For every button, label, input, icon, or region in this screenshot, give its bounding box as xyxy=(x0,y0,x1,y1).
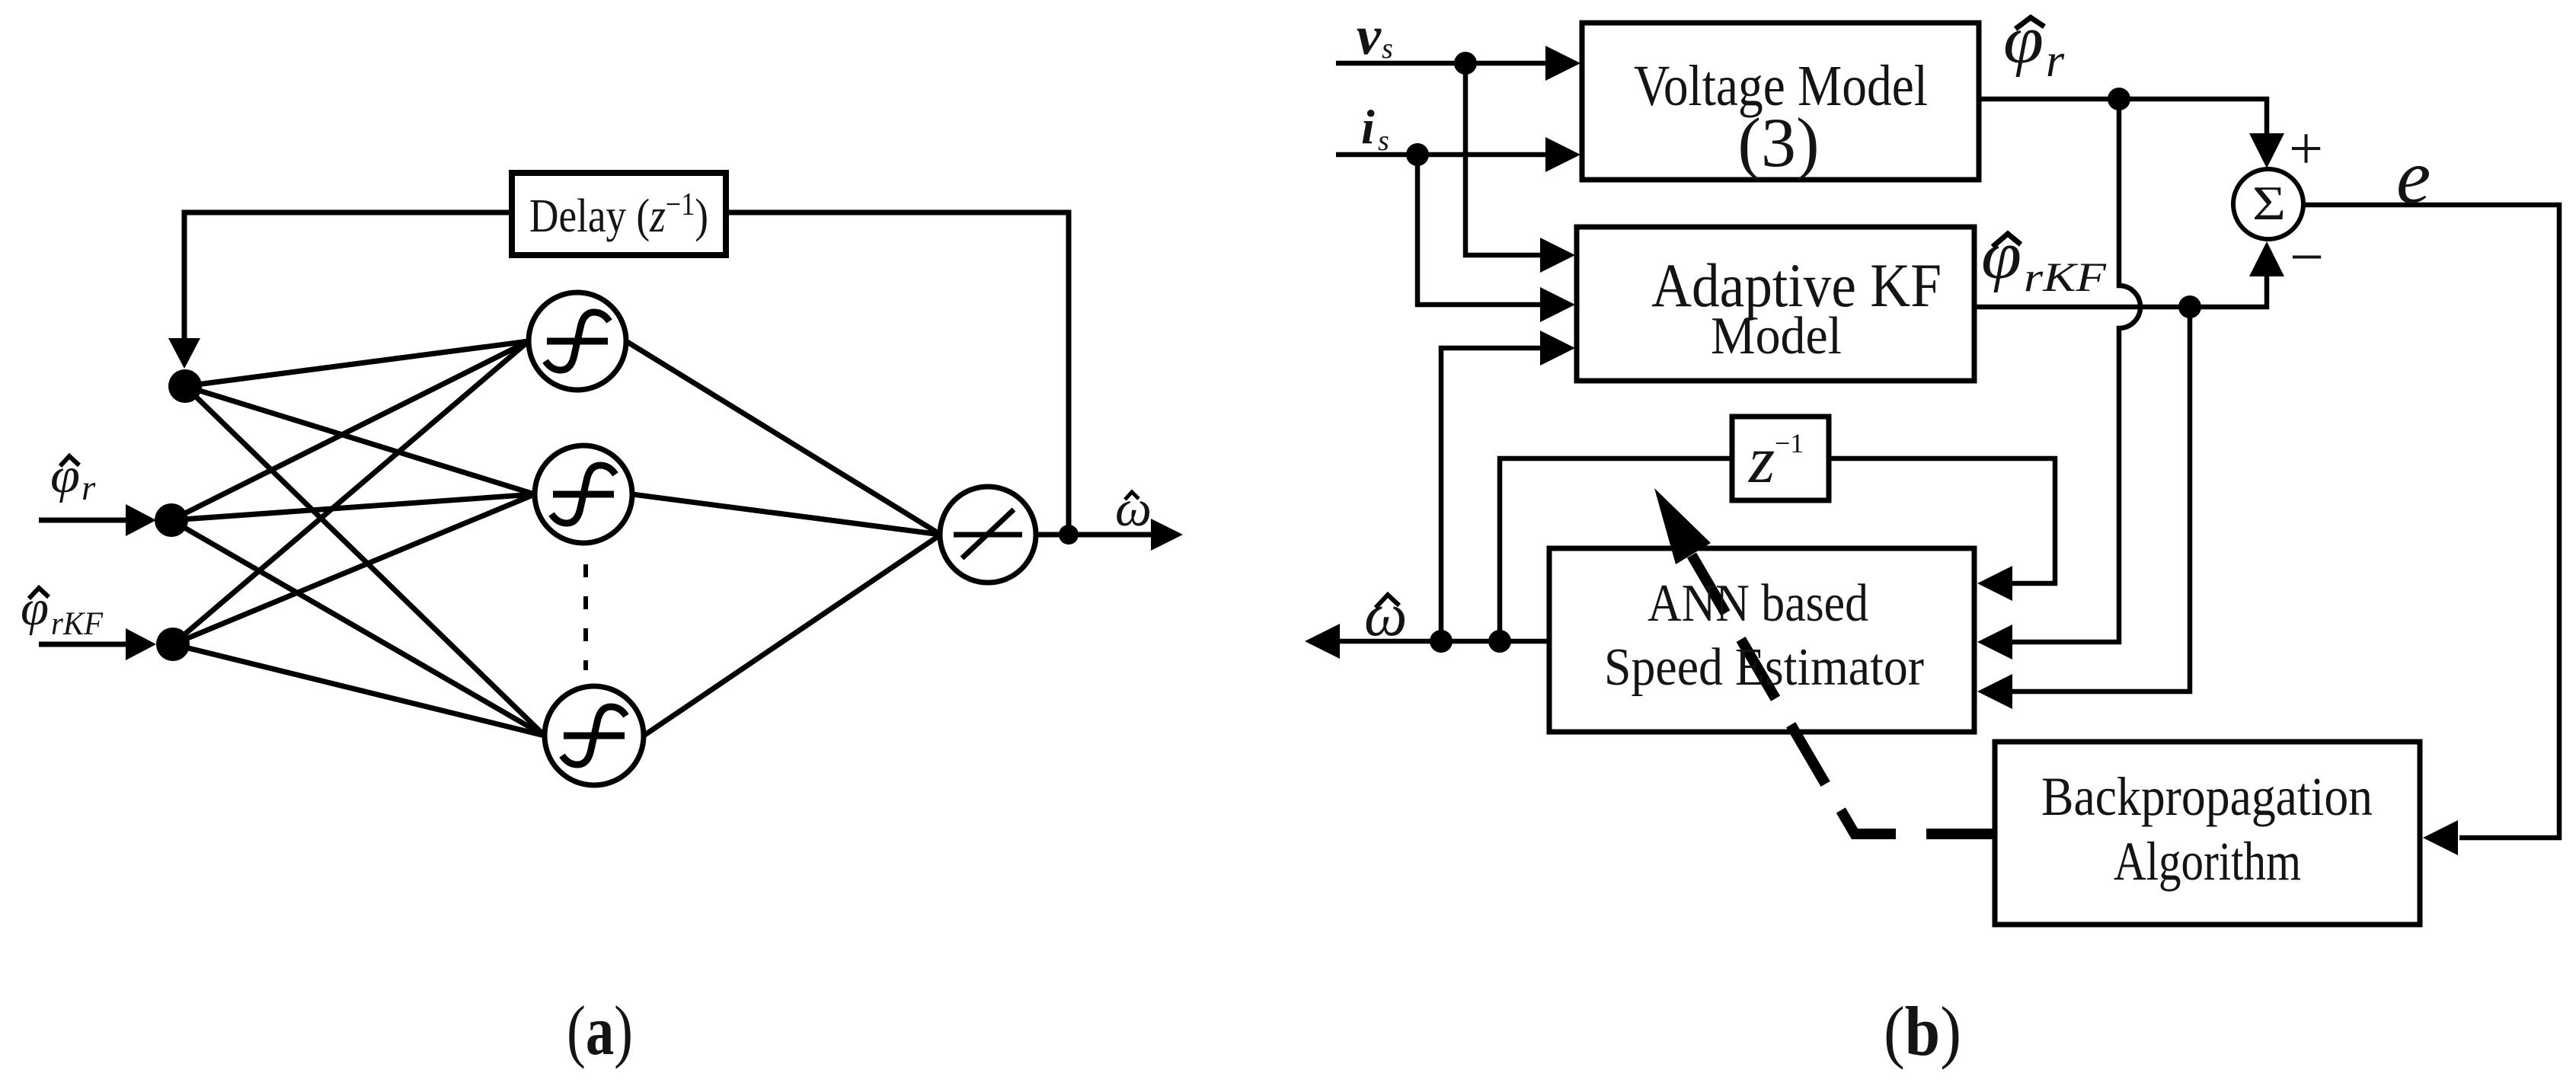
svg-text:Speed Estimator: Speed Estimator xyxy=(1604,638,1924,697)
svg-text:i: i xyxy=(1361,100,1375,154)
svg-text:r: r xyxy=(2046,35,2065,87)
svg-text:Model: Model xyxy=(1711,307,1842,366)
svg-text:rKF: rKF xyxy=(2024,254,2107,300)
svg-text:rKF: rKF xyxy=(51,606,104,642)
svg-text:φ: φ xyxy=(1981,218,2021,293)
svg-text:ANN based: ANN based xyxy=(1648,574,1868,633)
svg-text:e: e xyxy=(2396,134,2431,220)
svg-text:z: z xyxy=(1748,423,1775,497)
svg-text:−: − xyxy=(2290,224,2324,291)
svg-text:φ: φ xyxy=(50,448,80,503)
svg-text:Algorithm: Algorithm xyxy=(2114,831,2301,892)
svg-text:r: r xyxy=(81,468,96,508)
svg-text:(3): (3) xyxy=(1737,104,1819,181)
svg-text:s: s xyxy=(1378,125,1389,157)
svg-text:φ: φ xyxy=(21,580,49,636)
svg-text:v: v xyxy=(1357,5,1382,66)
svg-text:s: s xyxy=(1382,33,1393,65)
svg-text:(b): (b) xyxy=(1884,992,1961,1070)
svg-text:(a): (a) xyxy=(567,992,633,1069)
svg-text:ω: ω xyxy=(1364,582,1407,649)
svg-text:Σ: Σ xyxy=(2252,176,2286,230)
svg-text:−1: −1 xyxy=(1775,428,1804,458)
svg-text:ω: ω xyxy=(1115,479,1152,537)
svg-text:+: + xyxy=(2289,116,2323,183)
svg-text:Backpropagation: Backpropagation xyxy=(2041,766,2373,827)
svg-text:φ: φ xyxy=(2003,2,2044,78)
